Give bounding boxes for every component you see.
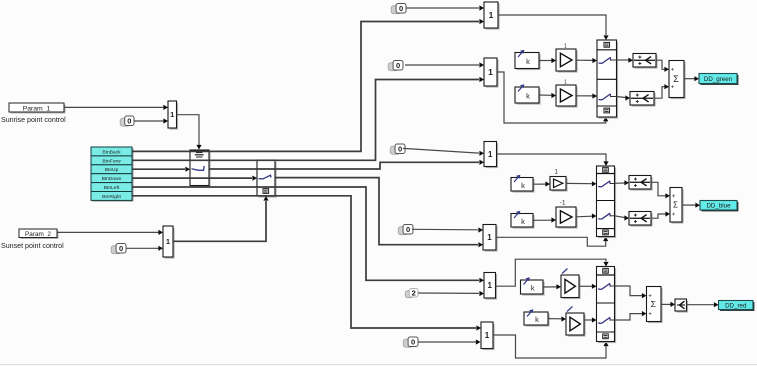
wire sum Sum3 to saturation SatR — [661, 302, 675, 307]
svg-text:2: 2 — [412, 288, 416, 297]
svg-text:Sunset point control: Sunset point control — [1, 242, 64, 250]
wire K4 to gain T4 — [533, 217, 556, 222]
wire Param_2 to selector 1B — [57, 230, 163, 235]
block Param_1 — [9, 103, 66, 114]
svg-text:BtnBack: BtnBack — [102, 149, 121, 155]
svg-text:BtnForw: BtnForw — [102, 158, 121, 164]
wire constant to 1-B2 — [412, 227, 483, 232]
svg-text:1: 1 — [485, 331, 490, 340]
slider gain K3 — [511, 175, 535, 193]
svg-text:DD_blue: DD_blue — [706, 203, 731, 210]
wire Sat1 to sum Sum1 — [656, 60, 669, 72]
svg-text:k: k — [521, 181, 525, 190]
gain T3 — [550, 177, 568, 192]
wire gain T4 to switch S2 — [576, 213, 597, 218]
svg-text:k: k — [531, 284, 535, 293]
constant B1c value 0 — [390, 144, 405, 154]
wire 1-R2 to switch S3 bottom — [493, 335, 609, 358]
input signal BtnForw — [91, 156, 134, 166]
block 1-G2 — [484, 58, 499, 88]
input signal BtnBack — [91, 147, 134, 157]
wire sum Sum2 to tag DD_blue — [682, 203, 700, 208]
wire constant to selector 1B — [126, 246, 163, 251]
svg-text:BtnDown: BtnDown — [102, 176, 122, 182]
wire row1 BtnBack to 1-G1 — [132, 19, 484, 152]
wire row5 BtnLeft to 1-R1 — [132, 187, 484, 283]
block 1-G1 — [484, 2, 500, 30]
sum Sum3 — [647, 287, 663, 324]
wire 1-B2 to switch S2 bottom — [496, 237, 608, 247]
constant G2c value 0 — [388, 61, 403, 71]
wire switch SW2 out to 1-B2 — [275, 178, 483, 248]
wire selector 1A to switch SW1 control — [177, 115, 202, 150]
wire switch S1 upper out to saturation Sat1 — [617, 58, 634, 63]
input signal BtnLeft — [91, 183, 134, 193]
svg-text:k: k — [526, 92, 530, 101]
wire gain T5 to switch S3 — [579, 284, 597, 289]
wire constant to 1-G1 — [406, 5, 484, 10]
slider gain K6 — [524, 309, 550, 326]
wire Sat2 to sum Sum1 — [654, 84, 669, 98]
wire 1-G1 to switch S1 control — [498, 15, 609, 40]
svg-text:1: 1 — [170, 110, 174, 119]
wire switch S2 lower out to saturation Sat4 — [615, 215, 630, 220]
wire K2 to gain T2 — [539, 93, 556, 98]
svg-text:1: 1 — [488, 150, 493, 159]
constant C_sunset value 0 — [111, 244, 126, 254]
block 1-R1 — [484, 273, 497, 300]
svg-text:1: 1 — [489, 10, 494, 20]
scan artifact baseline — [0, 364, 757, 366]
wire gain T6 to switch S3 — [584, 317, 597, 322]
svg-text:Σ: Σ — [673, 201, 678, 210]
svg-text:Sunrise point control: Sunrise point control — [1, 116, 66, 124]
svg-text:1: 1 — [564, 44, 567, 50]
block 1-B2 — [483, 225, 498, 252]
svg-text:0: 0 — [398, 144, 402, 153]
svg-text:1: 1 — [488, 67, 493, 77]
svg-text:k: k — [526, 57, 530, 66]
wire row4 BtnDown to switch SW2 — [132, 176, 257, 181]
input signal BtnRight — [91, 192, 134, 202]
svg-text:0: 0 — [119, 244, 123, 253]
wire Param_1 to selector 1A — [64, 105, 168, 110]
svg-text:1: 1 — [487, 233, 492, 242]
output tag DD_blue — [700, 201, 738, 212]
label above T5 — [562, 269, 568, 274]
wire switch S2 upper out to saturation Sat3 — [615, 180, 630, 185]
constant C_sunrise value 0 — [120, 116, 134, 126]
svg-text:BtnUp: BtnUp — [105, 167, 119, 173]
slider gain K4 — [511, 211, 535, 229]
sum Sum2 — [670, 188, 684, 224]
wire switch S3 lower out to sum Sum3 — [615, 311, 647, 320]
svg-text:1: 1 — [166, 237, 170, 246]
wire constant to 1-G2 — [405, 62, 484, 67]
saturation Sat3 — [629, 176, 653, 191]
svg-text:k: k — [521, 217, 525, 226]
block 1-B1 — [484, 142, 498, 169]
wire constant to selector 1A — [134, 118, 168, 123]
switch SW1 icon — [192, 153, 205, 171]
svg-text:Param_2: Param_2 — [25, 231, 51, 238]
wire gain T1 to switch S1 — [576, 58, 597, 63]
svg-text:1: 1 — [564, 80, 567, 86]
wire saturation SatR to tag DD_red — [687, 302, 719, 307]
svg-text:0: 0 — [406, 225, 410, 234]
wire selector 1B to switch SW2 control — [173, 196, 269, 241]
wire K6 to gain T6 — [548, 316, 566, 321]
svg-text:BtnRight: BtnRight — [102, 194, 121, 200]
wire row3 BtnUp to switch SW1 — [132, 167, 190, 172]
wire gain T2 to switch S1 — [576, 93, 597, 98]
svg-text:0: 0 — [399, 4, 403, 13]
svg-text:BtnLeft: BtnLeft — [104, 185, 120, 191]
svg-text:Σ: Σ — [651, 299, 656, 309]
constant R2c value 0 — [403, 337, 418, 347]
saturation Sat2 — [630, 92, 656, 107]
slider gain K1 — [515, 50, 541, 70]
block Param_2 — [19, 229, 59, 239]
wire K1 to gain T1 — [539, 58, 556, 63]
wire constant to 1-B1 — [403, 148, 484, 156]
wire row6 BtnRight to 1-R2 — [132, 196, 481, 331]
input signal BtnUp — [91, 165, 134, 175]
gain T6 — [566, 313, 586, 337]
gain T4 — [556, 207, 578, 229]
svg-text:DD_red: DD_red — [725, 302, 747, 309]
wire switch SW1 out to 1-B1 — [209, 160, 484, 169]
wire gain T3 to switch S2 — [566, 181, 597, 186]
constant R1c value 2 — [405, 288, 418, 297]
wire 1-R1 to switch S3 control — [496, 259, 609, 286]
multiport switch S2 — [597, 166, 617, 238]
svg-text:0: 0 — [396, 61, 400, 70]
switch SW2 body — [257, 160, 277, 198]
svg-text:1: 1 — [555, 169, 559, 176]
saturation Sat4 — [629, 212, 653, 227]
block selector 1A — [168, 101, 178, 130]
wire switch S3 upper out to sum Sum3 — [615, 286, 647, 298]
svg-text:DD_green: DD_green — [704, 76, 733, 83]
svg-text:0: 0 — [127, 116, 131, 125]
wire constant to 1-R1 — [418, 291, 484, 296]
constant G1c value 0 — [391, 4, 406, 14]
svg-text:1: 1 — [488, 281, 493, 290]
saturation Sat1 — [633, 54, 658, 69]
constant B2c value 0 — [398, 225, 413, 235]
wire Sat3 to sum Sum2 — [651, 182, 670, 198]
wire K5 to gain T5 — [543, 284, 561, 289]
wire 1-G2 to switch S1 bottom — [497, 72, 608, 123]
wire switch S1 lower out to saturation Sat2 — [617, 95, 631, 100]
svg-text:Param_1: Param_1 — [23, 105, 51, 112]
wire K3 to gain T3 — [533, 181, 550, 186]
multiport switch S1 — [597, 40, 618, 119]
output tag DD_red — [719, 301, 755, 311]
slider gain K5 — [521, 277, 545, 295]
output tag DD_green — [699, 74, 738, 85]
svg-text:Σ: Σ — [673, 74, 679, 84]
label above T6 — [567, 307, 573, 312]
wire 1-B1 to switch S2 control — [497, 154, 609, 166]
multiport switch S3 — [597, 267, 617, 344]
gain T1 — [556, 49, 578, 73]
svg-text:0: 0 — [411, 337, 415, 346]
switch SW2 icon — [259, 175, 272, 193]
sum Sum1 — [669, 61, 686, 100]
wire row2 BtnForw to 1-G2 — [132, 77, 484, 160]
wire constant to 1-R2 — [418, 339, 481, 344]
gain T5 — [561, 275, 581, 299]
wire Sat4 to sum Sum2 — [651, 211, 670, 218]
block selector 1B — [163, 226, 175, 259]
gain T2 — [556, 85, 578, 108]
switch SW1 body — [190, 150, 211, 187]
slider gain K2 — [515, 84, 541, 104]
svg-text:k: k — [535, 315, 539, 324]
wire sum Sum1 to tag DD_green — [684, 76, 699, 81]
input signal BtnDown — [91, 174, 134, 184]
svg-text:-1: -1 — [560, 200, 566, 207]
saturation SatR — [675, 299, 688, 313]
block 1-R2 — [481, 322, 495, 350]
